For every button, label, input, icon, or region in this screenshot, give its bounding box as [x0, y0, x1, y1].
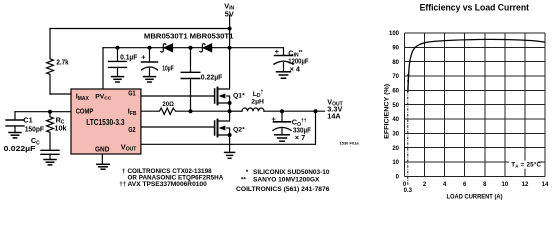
- node Q1 source: [228, 101, 232, 105]
- capacitor C1: [14, 112, 16, 120]
- svg-text:+: +: [275, 47, 279, 56]
- node CO tap: [280, 109, 284, 113]
- wire G1: [141, 95, 215, 97]
- svg-text:60: 60: [392, 89, 399, 95]
- ground IC: [97, 163, 110, 165]
- svg-text:G1: G1: [128, 89, 135, 98]
- svg-text:GND: GND: [95, 144, 110, 153]
- svg-text:20: 20: [392, 146, 399, 152]
- svg-text:COILTRONICS (561) 241-7876: COILTRONICS (561) 241-7876: [236, 186, 330, 193]
- ground CC: [44, 159, 56, 161]
- svg-text:G2: G2: [128, 125, 135, 134]
- wire VOUT rail: [141, 111, 316, 144]
- capacitor 0.22uF: [190, 48, 192, 72]
- node 10uF tap: [148, 46, 152, 50]
- ground CO: [275, 134, 289, 136]
- chart annotation TA=25C: [509, 161, 539, 169]
- Q1 arrow: [219, 94, 226, 99]
- wire PVCC rail: [103, 47, 230, 49]
- svg-text:Q1*: Q1*: [233, 92, 245, 99]
- wire IMAX: [50, 93, 71, 95]
- svg-text:SILICONIX SUD50N03-10: SILICONIX SUD50N03-10: [253, 169, 330, 176]
- wire rail to CIN: [230, 48, 284, 56]
- chart grid: [405, 33, 546, 176]
- wire COMP: [15, 111, 71, 113]
- svg-text:20Ω: 20Ω: [162, 101, 174, 108]
- diode D1 MBR0530T1: [161, 44, 173, 52]
- svg-text:**: **: [241, 177, 246, 184]
- footnotes: [119, 168, 330, 193]
- capacitor CIN: [275, 55, 293, 57]
- node Q2 source: [228, 133, 232, 137]
- svg-text:MBR0530T1: MBR0530T1: [190, 33, 234, 40]
- svg-text:0.3: 0.3: [404, 188, 413, 194]
- svg-text:MBR0530T1: MBR0530T1: [144, 33, 188, 40]
- svg-text:+: +: [272, 114, 276, 123]
- wire G2: [141, 126, 215, 128]
- resistor 2.7k: [47, 29, 54, 95]
- capacitor 0.1uF: [117, 48, 119, 62]
- svg-text:10k: 10k: [54, 123, 67, 132]
- wire VIN drop: [229, 15, 231, 48]
- svg-text:40: 40: [392, 117, 399, 123]
- resistor RC 10k: [47, 112, 54, 150]
- wire PVCC pin: [102, 48, 104, 89]
- ground C1: [9, 132, 21, 134]
- transistor Q1: [214, 89, 216, 103]
- chart x labels: [403, 182, 549, 194]
- node VOUT feedback: [314, 109, 318, 113]
- svg-text:2.7k: 2.7k: [56, 58, 69, 67]
- svg-text:LOAD CURRENT (A): LOAD CURRENT (A): [447, 193, 503, 200]
- svg-text:70: 70: [392, 74, 399, 80]
- svg-text:†: †: [122, 168, 126, 175]
- svg-text:1530 F01a: 1530 F01a: [340, 140, 360, 145]
- svg-text:14A: 14A: [327, 112, 341, 121]
- svg-text:2µH: 2µH: [251, 99, 264, 106]
- ground 10uF: [144, 76, 156, 78]
- svg-text:80: 80: [392, 60, 399, 66]
- svg-text:10: 10: [392, 160, 399, 166]
- transistor Q2: [214, 121, 216, 135]
- svg-text:10µF: 10µF: [162, 63, 174, 72]
- Q2 arrow: [219, 126, 226, 131]
- svg-text:12: 12: [522, 182, 529, 188]
- svg-text:COMP: COMP: [76, 106, 94, 115]
- svg-text:5V: 5V: [225, 9, 234, 18]
- node 0.1uF tap: [116, 46, 120, 50]
- svg-text:150pF: 150pF: [25, 125, 45, 134]
- svg-text:Efficiency vs Load Current: Efficiency vs Load Current: [420, 2, 529, 12]
- schematic text labels: [4, 1, 343, 152]
- svg-text:C1: C1: [23, 116, 32, 125]
- svg-text:30: 30: [392, 132, 399, 138]
- op-amp U1 LTC1530-3.3 block: [71, 89, 141, 154]
- capacitor CC: [41, 149, 59, 151]
- ground 0.1uF: [112, 76, 124, 78]
- ground Q2: [225, 151, 235, 153]
- svg-text:50: 50: [392, 103, 399, 109]
- svg-text:× 7: × 7: [295, 133, 305, 142]
- node PVCC rail / VIN: [228, 46, 232, 50]
- svg-text:0.1µF: 0.1µF: [120, 52, 138, 61]
- ground CIN: [277, 71, 291, 73]
- inductor LD 2uH: [230, 110, 242, 112]
- diode D2 MBR0530T1: [200, 44, 212, 52]
- node IFB/0.22uF: [189, 109, 193, 113]
- capacitor 10uF: [149, 48, 151, 62]
- node SW: [228, 109, 232, 113]
- wire IFB with resistor 20ohm: [141, 108, 230, 114]
- svg-text:10: 10: [502, 182, 509, 188]
- node top rail / VIN: [228, 27, 232, 31]
- svg-text:× 4: × 4: [290, 64, 301, 73]
- IC GND pin wire: [101, 154, 103, 164]
- chart y labels: [389, 31, 400, 180]
- svg-text:SANYO 10MV1200GX: SANYO 10MV1200GX: [253, 177, 320, 184]
- svg-text:0.22µF: 0.22µF: [201, 72, 223, 81]
- svg-text:+: +: [141, 52, 145, 61]
- svg-text:0.022µF: 0.022µF: [4, 144, 36, 153]
- chart dash-dot 0.3A line: [407, 74, 409, 186]
- svg-text:Q2*: Q2*: [233, 126, 245, 133]
- svg-text:100: 100: [389, 31, 400, 37]
- wire top rail VIN to IMAX resistor: [50, 28, 230, 30]
- chart efficiency curve: [408, 39, 545, 92]
- node COMP: [48, 110, 52, 114]
- svg-text:14: 14: [542, 182, 549, 188]
- svg-text:90: 90: [392, 46, 399, 52]
- junction dots: [48, 27, 318, 138]
- IC pin labels: [76, 89, 137, 154]
- capacitor CO: [281, 111, 283, 121]
- svg-text:LTC1530-3.3: LTC1530-3.3: [86, 118, 125, 127]
- svg-text:AVX TPSE337M006R0100: AVX TPSE337M006R0100: [128, 181, 208, 188]
- svg-text:EFFICIENCY (%): EFFICIENCY (%): [384, 84, 391, 139]
- node diodes junction: [189, 46, 193, 50]
- svg-text:††: ††: [119, 181, 127, 188]
